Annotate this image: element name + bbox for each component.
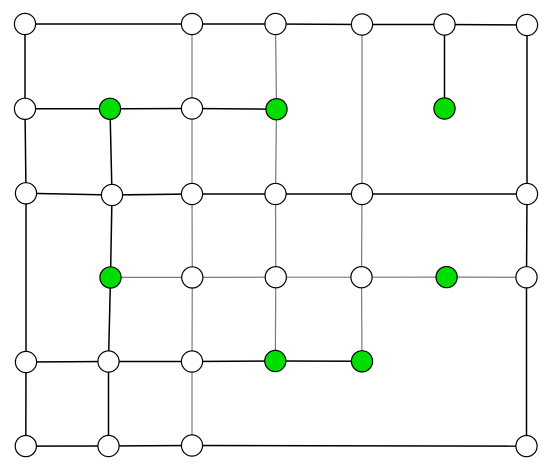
wire A6-B6: [444, 25, 446, 109]
wire F1-F2: [26, 445, 109, 447]
wire D5-E5: [361, 277, 364, 361]
wire A5-A6: [362, 24, 445, 26]
wire E3-E4: [192, 360, 275, 363]
wire E4-E5: [275, 360, 362, 362]
node A4: [265, 13, 286, 34]
node A1: [14, 13, 35, 34]
wire A3-B3: [191, 24, 193, 109]
wire E2-E3: [109, 361, 193, 363]
wire D4-E4: [274, 277, 277, 361]
wire D3-D4: [192, 276, 275, 278]
node C5: [351, 183, 372, 204]
wire B2-C2: [110, 109, 112, 195]
wire E3-F3: [191, 362, 193, 446]
wire C5-C7: [362, 193, 527, 195]
node F3: [181, 435, 202, 456]
node B4: [266, 99, 287, 120]
wire B1-C1: [25, 109, 26, 194]
node E2: [98, 351, 119, 372]
node E3: [181, 351, 202, 372]
node D5: [351, 267, 372, 288]
node D3: [182, 267, 203, 288]
node C1: [15, 183, 36, 204]
node B1: [14, 98, 35, 119]
node D2: [100, 267, 121, 288]
node B6: [434, 98, 455, 119]
node A6: [434, 14, 455, 35]
node C2: [101, 184, 122, 205]
wire C4-C5: [276, 193, 363, 195]
wire C3-D3: [191, 194, 193, 277]
wire D2-E2: [109, 277, 111, 361]
wire B3-B4: [192, 108, 277, 111]
wire C1-E1: [25, 193, 27, 362]
node D7: [516, 267, 537, 288]
wire A4-A5: [276, 23, 363, 26]
node C3: [181, 183, 202, 204]
wire E1-E2: [26, 361, 109, 364]
wire A3-A4: [192, 23, 276, 25]
node A7: [516, 14, 537, 35]
node E4: [265, 350, 286, 371]
wire F2-F3: [109, 445, 193, 448]
wire D7-F7: [526, 277, 528, 446]
node E1: [15, 351, 36, 372]
node B2: [99, 98, 120, 119]
wire A1-B1: [24, 24, 26, 109]
wire D3-E3: [191, 277, 193, 361]
wire B4-C4: [276, 109, 277, 194]
wire B1-B2: [25, 108, 110, 110]
node F1: [15, 436, 36, 457]
node F2: [98, 435, 119, 456]
wire E1-F1: [25, 362, 27, 446]
wire C3-C4: [192, 193, 276, 195]
node D6: [436, 267, 457, 288]
wire D5-D6: [362, 276, 447, 278]
wire F3-F7: [192, 445, 527, 448]
node A3: [181, 13, 202, 34]
wire E2-F2: [108, 362, 110, 447]
wire C2-D2: [111, 195, 113, 277]
wire D2-D3: [111, 276, 193, 278]
node B3: [181, 98, 202, 119]
node D4: [265, 267, 286, 288]
wire B3-C3: [191, 109, 193, 195]
wire A1-A3: [25, 23, 192, 25]
wire C1-C2: [26, 193, 112, 195]
node C4: [265, 183, 286, 204]
node A5: [351, 14, 372, 35]
wire D4-D5: [276, 276, 362, 278]
wire C7-D7: [526, 194, 529, 277]
wire D6-D7: [447, 276, 527, 278]
wire B2-B3: [110, 108, 192, 110]
wire C5-D5: [361, 194, 364, 277]
node F7: [516, 436, 537, 457]
wire C2-C3: [112, 194, 192, 195]
wire A7-C7: [526, 25, 528, 194]
wire C4-D4: [275, 194, 277, 277]
wire A4-B4: [276, 24, 277, 109]
node E5: [351, 351, 372, 372]
wire A5-C5: [361, 25, 363, 195]
wire A6-A7: [445, 24, 528, 27]
node C7: [516, 183, 537, 204]
